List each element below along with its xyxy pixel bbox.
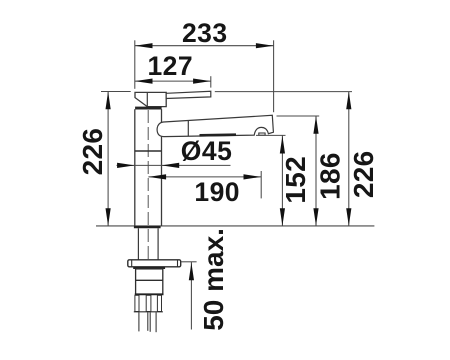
legs base line xyxy=(134,311,163,313)
shank xyxy=(137,228,139,259)
mounting block xyxy=(136,269,163,294)
lever handle xyxy=(166,91,211,98)
centerline of faucet axis xyxy=(147,110,149,259)
mounting flange xyxy=(128,260,181,267)
svg-text:50 max.: 50 max. xyxy=(198,228,229,331)
spout outline xyxy=(157,115,273,136)
dimension 226 left xyxy=(101,92,131,226)
dimension 226 right xyxy=(215,92,352,226)
deck / counter reference line xyxy=(96,225,374,227)
hose 2 xyxy=(147,312,149,331)
leg 2 xyxy=(146,295,151,311)
dimension 127 xyxy=(135,76,211,87)
svg-text:233: 233 xyxy=(182,18,228,48)
hose 4 xyxy=(155,312,157,332)
hose 3 xyxy=(149,312,151,332)
svg-text:127: 127 xyxy=(147,51,193,81)
leg 3 xyxy=(157,295,161,311)
svg-text:152: 152 xyxy=(280,156,311,204)
dimension 50 max. xyxy=(181,262,197,330)
spout seam xyxy=(187,121,189,137)
collar ring under head xyxy=(135,107,162,110)
svg-text:226: 226 xyxy=(77,128,108,176)
svg-text:186: 186 xyxy=(315,152,346,200)
block seam xyxy=(136,279,163,281)
leg 1 xyxy=(135,295,139,311)
hose 1 xyxy=(138,312,140,331)
body bottom edge xyxy=(134,226,161,228)
faucet body xyxy=(134,109,136,226)
dimension 190 xyxy=(148,171,261,198)
aerator outlet xyxy=(259,133,265,135)
svg-text:Ø45: Ø45 xyxy=(181,136,233,166)
body seam line xyxy=(135,150,162,152)
underside dark strip xyxy=(200,133,237,136)
dimension 233 xyxy=(135,40,274,112)
head cap xyxy=(135,92,166,106)
dimension Ø45 xyxy=(117,164,231,166)
svg-text:190: 190 xyxy=(194,177,240,207)
head divider xyxy=(146,92,148,106)
dimension 186 xyxy=(277,116,320,226)
gasket under flange xyxy=(133,267,165,269)
svg-text:226: 226 xyxy=(348,150,379,198)
dimension 152 xyxy=(256,135,286,226)
block bottom edge xyxy=(135,293,164,295)
